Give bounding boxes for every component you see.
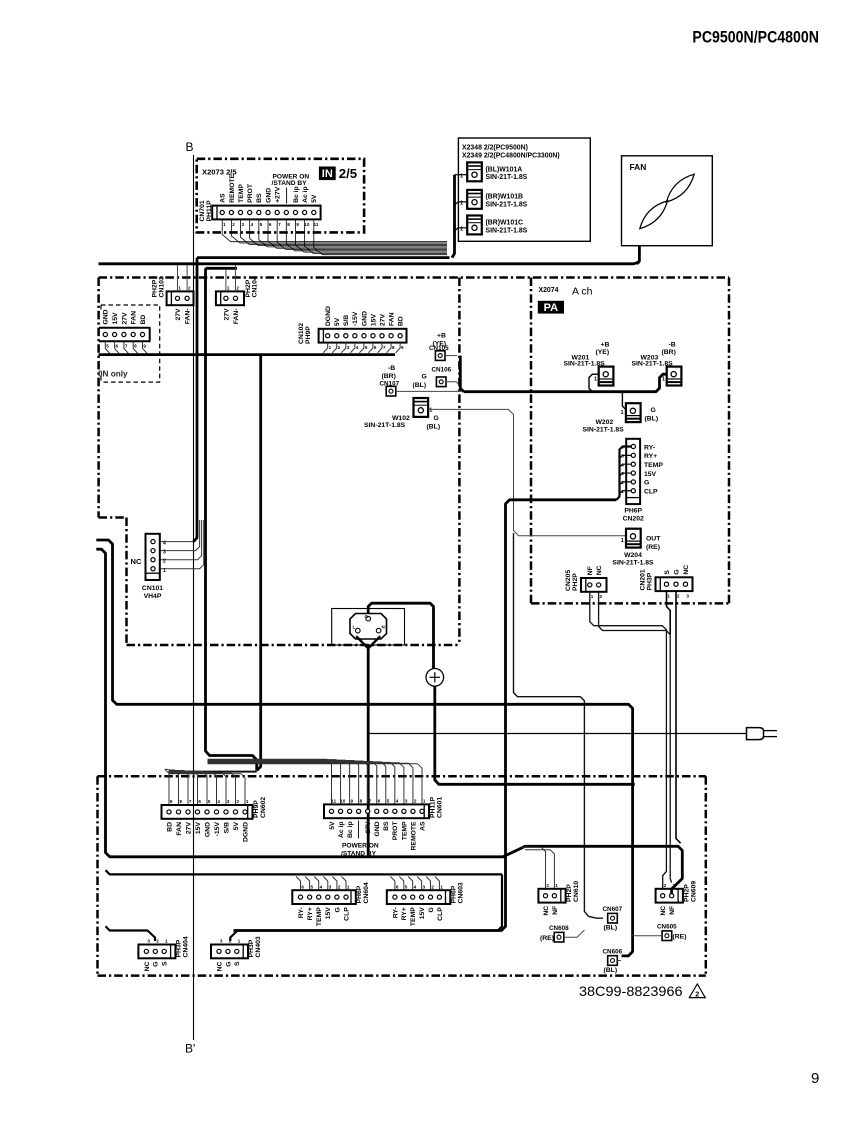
svg-text:-B: -B (388, 365, 395, 372)
svg-text:9: 9 (143, 344, 146, 349)
AC inlet socket symbol (350, 614, 387, 649)
svg-text:4: 4 (356, 345, 359, 350)
wire bus CN102 horizontal (99, 353, 396, 356)
svg-text:CN608: CN608 (549, 925, 569, 932)
svg-text:BS: BS (383, 821, 390, 831)
svg-text:FAN-: FAN- (233, 308, 240, 324)
svg-text:2: 2 (664, 883, 667, 888)
svg-text:9: 9 (401, 345, 404, 350)
wire bus L3 (206, 267, 238, 270)
svg-text:7: 7 (189, 799, 192, 804)
svg-text:0N only: 0N only (98, 370, 128, 379)
label PH3P CN404 (176, 936, 190, 957)
svg-text:5: 5 (387, 799, 390, 804)
svg-text:2: 2 (163, 559, 166, 565)
svg-text:NF: NF (587, 566, 594, 575)
svg-text:2: 2 (695, 989, 699, 998)
label PH3P CN403 (248, 936, 262, 957)
label CN201 PH3P (640, 569, 654, 590)
svg-text:A ch: A ch (572, 285, 593, 297)
svg-text:(BL): (BL) (413, 382, 427, 389)
svg-text:CN602: CN602 (260, 797, 267, 818)
connector CN404 PH3P (138, 939, 175, 972)
svg-text:GND: GND (204, 822, 211, 837)
connector CN610 PH2P (538, 883, 565, 916)
svg-text:TEMP: TEMP (316, 907, 323, 926)
svg-text:PH11P: PH11P (206, 200, 213, 222)
svg-text:GND: GND (103, 309, 110, 324)
svg-text:G: G (422, 374, 427, 381)
svg-text:3: 3 (241, 222, 244, 227)
label W101C (460, 219, 528, 234)
wire drops H2 to CN603 (390, 877, 439, 891)
svg-text:3: 3 (220, 939, 223, 944)
svg-text:G: G (428, 907, 435, 912)
svg-text:7: 7 (278, 222, 281, 227)
svg-text:1: 1 (178, 286, 181, 291)
svg-text:SIN-21T-1.8S: SIN-21T-1.8S (486, 202, 528, 209)
svg-text:11: 11 (331, 799, 336, 804)
svg-text:G: G (365, 614, 369, 619)
svg-text:4: 4 (163, 541, 166, 547)
connector CN606 (608, 956, 618, 966)
svg-text:DGND: DGND (242, 822, 249, 842)
wire CN201 pin2 down (676, 592, 681, 843)
svg-text:N: N (382, 625, 385, 630)
svg-text:(RE): (RE) (673, 934, 687, 941)
label NC CN101 VH4P (131, 557, 164, 600)
svg-text:CN610: CN610 (573, 881, 580, 902)
svg-text:RY-: RY- (392, 907, 399, 918)
svg-text:CN105: CN105 (429, 345, 449, 352)
svg-text:GND: GND (374, 821, 381, 836)
svg-text:9: 9 (351, 799, 354, 804)
wire V1 branch CN404 feed (106, 926, 156, 941)
svg-text:(RE): (RE) (646, 544, 660, 551)
svg-text:27V: 27V (185, 822, 192, 835)
svg-text:3: 3 (163, 550, 166, 556)
svg-text:NC: NC (543, 906, 550, 916)
wire bundle CN601 (208, 759, 423, 804)
svg-text:G: G (434, 415, 439, 422)
svg-text:5V: 5V (233, 822, 240, 831)
svg-text:10: 10 (340, 799, 346, 804)
svg-text:2: 2 (338, 884, 341, 889)
svg-text:9: 9 (170, 799, 173, 804)
svg-text:Bc ip: Bc ip (293, 186, 300, 203)
connector CN602 PH9P (162, 799, 253, 842)
svg-text:X2348 2/2(PC9500N): X2348 2/2(PC9500N) (462, 144, 528, 151)
svg-text:SIN-21T-1.8S: SIN-21T-1.8S (364, 422, 406, 429)
connector W201 (599, 367, 614, 386)
svg-text:5: 5 (311, 884, 314, 889)
label X2348 X2349 (462, 144, 560, 159)
svg-text:IN: IN (322, 168, 333, 180)
svg-text:BD: BD (166, 822, 173, 832)
svg-text:1: 1 (347, 884, 350, 889)
svg-text:15V: 15V (644, 471, 657, 478)
svg-text:GND: GND (361, 311, 368, 326)
box FAN (622, 156, 713, 246)
label CN106 G (BL) (413, 367, 452, 389)
svg-text:OUT: OUT (646, 535, 661, 542)
connector CN103 PH2P (167, 286, 194, 325)
svg-text:CN605: CN605 (657, 923, 677, 930)
label PH6P CN604 (356, 882, 370, 903)
svg-text:(BL)W101A: (BL)W101A (486, 166, 523, 173)
svg-text:PROT: PROT (247, 183, 254, 203)
section line B (185, 140, 195, 1056)
svg-text:W204: W204 (624, 552, 642, 559)
svg-text:POWER ON: POWER ON (342, 843, 379, 850)
svg-text:15V: 15V (195, 822, 202, 835)
svg-text:11: 11 (314, 222, 319, 227)
svg-text:2: 2 (600, 594, 603, 599)
svg-text:15V: 15V (419, 907, 426, 920)
connector CN202 PH6P (621, 439, 663, 504)
connector CN101 VH4P (146, 534, 167, 580)
connector CN604 PH6P (292, 884, 356, 926)
svg-text:1: 1 (594, 377, 597, 383)
svg-text:27V: 27V (121, 312, 128, 325)
wire W102 to W204 via corner (428, 409, 626, 535)
svg-text:CN604: CN604 (363, 882, 370, 903)
svg-text:8: 8 (134, 344, 137, 349)
svg-text:G: G (225, 962, 232, 967)
svg-text:CN606: CN606 (603, 948, 623, 955)
label W204 OUT (RE) (612, 535, 661, 566)
wire AC cord line (368, 733, 746, 735)
wire CN610 pin leads to bus (521, 847, 554, 889)
svg-text:FAN: FAN (131, 311, 138, 325)
label CN102 PH9P (298, 323, 312, 344)
label W201 +B (YE) (564, 341, 610, 382)
svg-text:FAN: FAN (388, 312, 395, 326)
svg-text:5: 5 (208, 799, 211, 804)
svg-text:PH2P: PH2P (572, 573, 579, 591)
svg-text:FAN: FAN (630, 162, 647, 172)
svg-text:8: 8 (287, 222, 290, 227)
svg-text:2: 2 (338, 345, 341, 350)
svg-text:SIN-21T-1.8S: SIN-21T-1.8S (486, 174, 528, 181)
svg-text:1: 1 (621, 410, 624, 416)
wire CN102 pins to bus (323, 343, 400, 353)
wire bus L2 to FAN (99, 262, 640, 264)
wire V1 branch H2 to CN604 CN603 (106, 870, 503, 874)
svg-text:(RE): (RE) (540, 935, 554, 942)
svg-text:3: 3 (405, 799, 408, 804)
label W101B (460, 194, 528, 209)
svg-text:CN603: CN603 (457, 882, 464, 903)
svg-text:CN404: CN404 (182, 936, 189, 957)
dashed box PC9500N only (98, 305, 160, 382)
svg-text:S: S (162, 961, 169, 966)
svg-text:/STAND BY: /STAND BY (341, 851, 377, 858)
label PH2P CN104 (245, 276, 259, 297)
svg-text:2: 2 (236, 286, 239, 291)
svg-text:G: G (644, 480, 649, 487)
wire bus vertical V4 (257, 355, 261, 771)
svg-text:1: 1 (673, 883, 676, 888)
svg-text:BD: BD (140, 315, 147, 325)
svg-text:5V: 5V (334, 317, 341, 326)
svg-text:8: 8 (179, 799, 182, 804)
svg-text:9: 9 (296, 222, 299, 227)
svg-text:10: 10 (304, 222, 310, 227)
svg-text:S: S (664, 570, 671, 575)
svg-text:SIN-21T-1.8S: SIN-21T-1.8S (564, 360, 606, 367)
svg-text:CN202: CN202 (623, 515, 644, 522)
svg-text:-B: -B (669, 341, 676, 348)
label W102 G (BL) (364, 407, 440, 430)
svg-text:CN403: CN403 (255, 936, 262, 957)
label CN607 (BL) (603, 906, 623, 932)
wire CN205 pin1 down across to CN609 (590, 592, 667, 890)
badge PA (538, 301, 564, 314)
wire CN104 pins up (226, 265, 236, 291)
svg-text:VH4P: VH4P (144, 593, 162, 600)
connector CN205 PH2P (581, 565, 607, 599)
svg-text:+B: +B (437, 332, 446, 339)
connector CN105 (435, 351, 445, 361)
wire vertical bus VB x205.5 (206, 268, 257, 770)
svg-text:Ac ip: Ac ip (302, 186, 309, 203)
connector CN107 (386, 386, 396, 396)
box X2348/X2349 (458, 138, 590, 241)
connector CN (PC9500N only, cut) (99, 309, 150, 348)
svg-text:+B: +B (601, 341, 610, 348)
svg-text:6: 6 (269, 222, 272, 227)
svg-text:3: 3 (227, 799, 230, 804)
connector W102 (414, 398, 429, 417)
wire bus node to W201/W203 (464, 374, 667, 392)
svg-text:CN107: CN107 (380, 380, 400, 387)
svg-text:Ac ip: Ac ip (338, 821, 345, 838)
label PH6P CN603 (451, 882, 465, 903)
wire CN201 pin1 stub (667, 592, 671, 634)
svg-text:CN609: CN609 (690, 881, 697, 902)
label CN205 PH2P (565, 570, 579, 591)
svg-text:PC9500N/PC4800N: PC9500N/PC4800N (692, 28, 819, 47)
svg-text:(BL): (BL) (604, 967, 618, 974)
wire AC inlet earth pin down (367, 646, 370, 857)
wire AC inlet top to earth (368, 603, 433, 668)
svg-text:2: 2 (236, 799, 239, 804)
label CN107 -B (BR) (380, 365, 400, 387)
svg-text:CN601: CN601 (436, 797, 443, 818)
label PH9P CN602 (253, 797, 267, 818)
svg-text:NC: NC (683, 565, 690, 575)
svg-text:2: 2 (229, 939, 232, 944)
svg-text:2/5: 2/5 (339, 166, 357, 181)
svg-text:1: 1 (667, 594, 670, 599)
svg-text:6: 6 (301, 884, 304, 889)
svg-text:SIN-21T-1.8S: SIN-21T-1.8S (632, 360, 674, 367)
svg-text:3: 3 (147, 939, 150, 944)
svg-text:CN103: CN103 (158, 276, 165, 297)
label CN701 PH11P (199, 200, 213, 222)
connector CN603 PH6P (387, 884, 451, 926)
svg-text:REMOTE: REMOTE (410, 821, 417, 851)
svg-text:2: 2 (188, 286, 191, 291)
svg-text:15V: 15V (112, 312, 119, 325)
dash-dot box lower section (98, 776, 706, 975)
svg-text:(YE): (YE) (596, 349, 610, 356)
svg-text:7: 7 (383, 345, 386, 350)
svg-text:4: 4 (217, 799, 220, 804)
svg-text:6: 6 (198, 799, 201, 804)
svg-text:1: 1 (223, 222, 226, 227)
label POWER ON /STAND BY (CN601) (341, 821, 379, 858)
connector CN403 PH3P (211, 939, 248, 972)
label PH11P CN601 (430, 796, 444, 818)
svg-text:5: 5 (365, 345, 368, 350)
fan symbol (640, 174, 694, 228)
svg-text:FAN-: FAN- (185, 308, 192, 324)
svg-text:NF: NF (552, 906, 559, 915)
dash-dot box PA X2074 (531, 278, 729, 604)
svg-text:CLP: CLP (343, 907, 350, 921)
connector CN609 PH2P (656, 883, 683, 916)
connector CN608 (554, 932, 564, 942)
svg-text:G: G (153, 962, 160, 967)
svg-text:B: B (186, 140, 194, 154)
svg-text:3: 3 (686, 594, 689, 599)
svg-text:27V: 27V (223, 308, 230, 321)
svg-text:1: 1 (429, 407, 432, 413)
svg-text:5: 5 (260, 222, 263, 227)
svg-text:S: S (234, 961, 241, 966)
wire X2348 plugs to bus (452, 175, 467, 258)
svg-text:6: 6 (378, 799, 381, 804)
wire vertical bus VA x197 (193, 258, 197, 542)
svg-text:3: 3 (329, 884, 332, 889)
wire W102 net down to CN607 (514, 533, 603, 918)
svg-text:1: 1 (329, 345, 332, 350)
svg-text:PH6P: PH6P (624, 507, 642, 514)
svg-text:RY-: RY- (644, 444, 655, 451)
svg-text:2: 2 (677, 594, 680, 599)
wire bundle into CN202 (617, 447, 632, 500)
svg-text:5V: 5V (329, 821, 336, 830)
label W203 -B (BR) (632, 341, 676, 382)
svg-text:W202: W202 (596, 419, 614, 426)
AC wall plug symbol (747, 728, 778, 740)
svg-text:PROT: PROT (392, 821, 399, 841)
svg-text:TEMP: TEMP (410, 907, 417, 926)
svg-text:2: 2 (156, 939, 159, 944)
svg-text:X2349 2/2(PC4800N/PC3300N): X2349 2/2(PC4800N/PC3300N) (462, 153, 560, 160)
svg-text:27V: 27V (365, 821, 372, 834)
connector W101B (467, 190, 482, 209)
connector CN102 PH9P (319, 306, 407, 350)
revision triangle 2 (689, 984, 705, 998)
label CN606 (BL) (603, 948, 623, 974)
wire CN106 to bus (446, 382, 459, 385)
svg-text:5: 5 (405, 884, 408, 889)
svg-text:1: 1 (238, 939, 241, 944)
svg-text:G: G (673, 569, 680, 574)
svg-text:S/B: S/B (343, 315, 350, 326)
wire FAN to bus (637, 246, 640, 264)
label CN105 +B (YE) (429, 332, 449, 352)
connector W101C (467, 216, 482, 235)
wire W201 to bus (589, 374, 599, 392)
wire CN107 node (396, 390, 461, 392)
svg-text:2: 2 (414, 799, 417, 804)
svg-text:B': B' (185, 1042, 195, 1056)
svg-text:5V: 5V (311, 194, 318, 203)
svg-text:CN101: CN101 (142, 585, 163, 592)
wire CN605 to bus (633, 935, 662, 937)
AC inlet outer box (332, 609, 405, 646)
svg-text:6: 6 (116, 344, 119, 349)
connector CN104 PH2P (216, 286, 244, 325)
svg-text:SIN-21T-1.8S: SIN-21T-1.8S (486, 227, 528, 234)
svg-text:6: 6 (374, 345, 377, 350)
label POWER ON /STAND BY (CN701) (272, 174, 310, 204)
svg-text:CLP: CLP (437, 907, 444, 921)
svg-text:NC: NC (144, 961, 151, 971)
svg-text:RY-: RY- (298, 907, 305, 918)
svg-text:(BR)W101C: (BR)W101C (486, 219, 524, 226)
svg-text:9: 9 (811, 1070, 819, 1087)
wire CN103 pins up (178, 265, 188, 291)
wire CN205 pin2 down across to CN609 (599, 592, 672, 883)
svg-text:G: G (651, 407, 656, 414)
svg-text:4: 4 (396, 799, 399, 804)
svg-text:15V: 15V (370, 314, 377, 327)
label W202 G (BL) (583, 407, 659, 434)
svg-text:DGND: DGND (325, 306, 332, 326)
svg-text:(BR): (BR) (662, 349, 676, 356)
label PH2P CN610 (566, 881, 580, 902)
svg-text:BD: BD (398, 316, 405, 326)
connector CN201 PH3P (656, 565, 693, 599)
svg-text:SIN-21T-1.8S: SIN-21T-1.8S (583, 427, 625, 434)
svg-text:(BL): (BL) (427, 424, 441, 431)
svg-text:5: 5 (106, 344, 109, 349)
badge IN 2/5 (319, 166, 357, 181)
label PH6P CN202 (623, 507, 644, 522)
svg-text:(BR): (BR) (382, 373, 396, 380)
svg-text:G: G (334, 907, 341, 912)
label PH2P CN609 (684, 881, 698, 902)
svg-text:SIN-21T-1.8S: SIN-21T-1.8S (612, 560, 654, 567)
svg-text:6: 6 (396, 884, 399, 889)
svg-text:NC: NC (216, 961, 223, 971)
connector W204 (626, 529, 641, 548)
svg-text:1: 1 (165, 939, 168, 944)
connector W101A (467, 162, 482, 181)
svg-text:(BL): (BL) (645, 415, 659, 422)
svg-text:NC: NC (131, 557, 142, 566)
svg-text:27V: 27V (379, 314, 386, 327)
svg-text:REMOTE: REMOTE (229, 173, 236, 203)
svg-text:4: 4 (251, 222, 254, 227)
svg-text:1: 1 (621, 538, 624, 544)
svg-text:1: 1 (246, 799, 249, 804)
svg-text:S/B: S/B (223, 822, 230, 833)
svg-text:-15V: -15V (214, 822, 221, 837)
svg-text:1: 1 (555, 883, 558, 888)
label CN608 (RE) (540, 925, 569, 942)
earth terminal symbol (426, 669, 444, 687)
svg-text:AS: AS (419, 821, 426, 831)
svg-text:15V: 15V (325, 907, 332, 920)
wire CN105 to bus (445, 355, 457, 357)
svg-text:X2074: X2074 (539, 287, 559, 294)
